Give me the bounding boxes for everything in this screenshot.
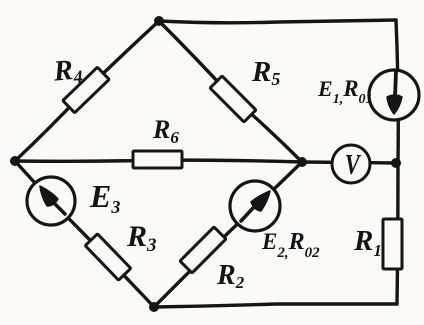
wire top node to right node <box>159 21 302 162</box>
svg-text:R4: R4 <box>51 53 83 88</box>
wire bottom node to right node <box>154 162 302 307</box>
resistor R5 <box>210 76 256 122</box>
svg-text:V: V <box>345 148 362 180</box>
wire top node to top-right corner <box>159 20 396 23</box>
wire left node to bottom node <box>15 161 154 307</box>
svg-text:R3: R3 <box>126 220 157 256</box>
voltmeter V <box>332 145 370 183</box>
resistor R1 <box>383 219 402 269</box>
svg-text:R6: R6 <box>152 115 179 147</box>
resistor R6 <box>133 151 182 168</box>
svg-text:E1,R01: E1,R01 <box>317 76 373 107</box>
resistor R2 <box>180 227 226 273</box>
node bottom <box>149 302 159 312</box>
node right <box>297 157 307 167</box>
wire right node to rail through voltmeter <box>302 162 396 163</box>
wire left node to right node (middle) <box>15 160 302 162</box>
node left <box>10 156 20 166</box>
resistor R3 <box>85 234 131 280</box>
source E3 <box>27 177 75 225</box>
svg-text:E3: E3 <box>89 178 120 217</box>
source E1 <box>369 70 419 120</box>
svg-text:E2,R02: E2,R02 <box>261 229 320 261</box>
svg-text:R5: R5 <box>251 56 280 89</box>
wire right rail <box>396 20 398 304</box>
node top <box>154 16 164 26</box>
wire left node to top node <box>15 21 159 161</box>
node rail junction <box>391 158 401 168</box>
wire bottom node to bottom-right corner <box>154 304 397 307</box>
svg-text:R2: R2 <box>216 260 245 292</box>
source E2 <box>230 181 280 231</box>
svg-text:R1: R1 <box>353 225 382 260</box>
resistor R4 <box>63 67 109 113</box>
